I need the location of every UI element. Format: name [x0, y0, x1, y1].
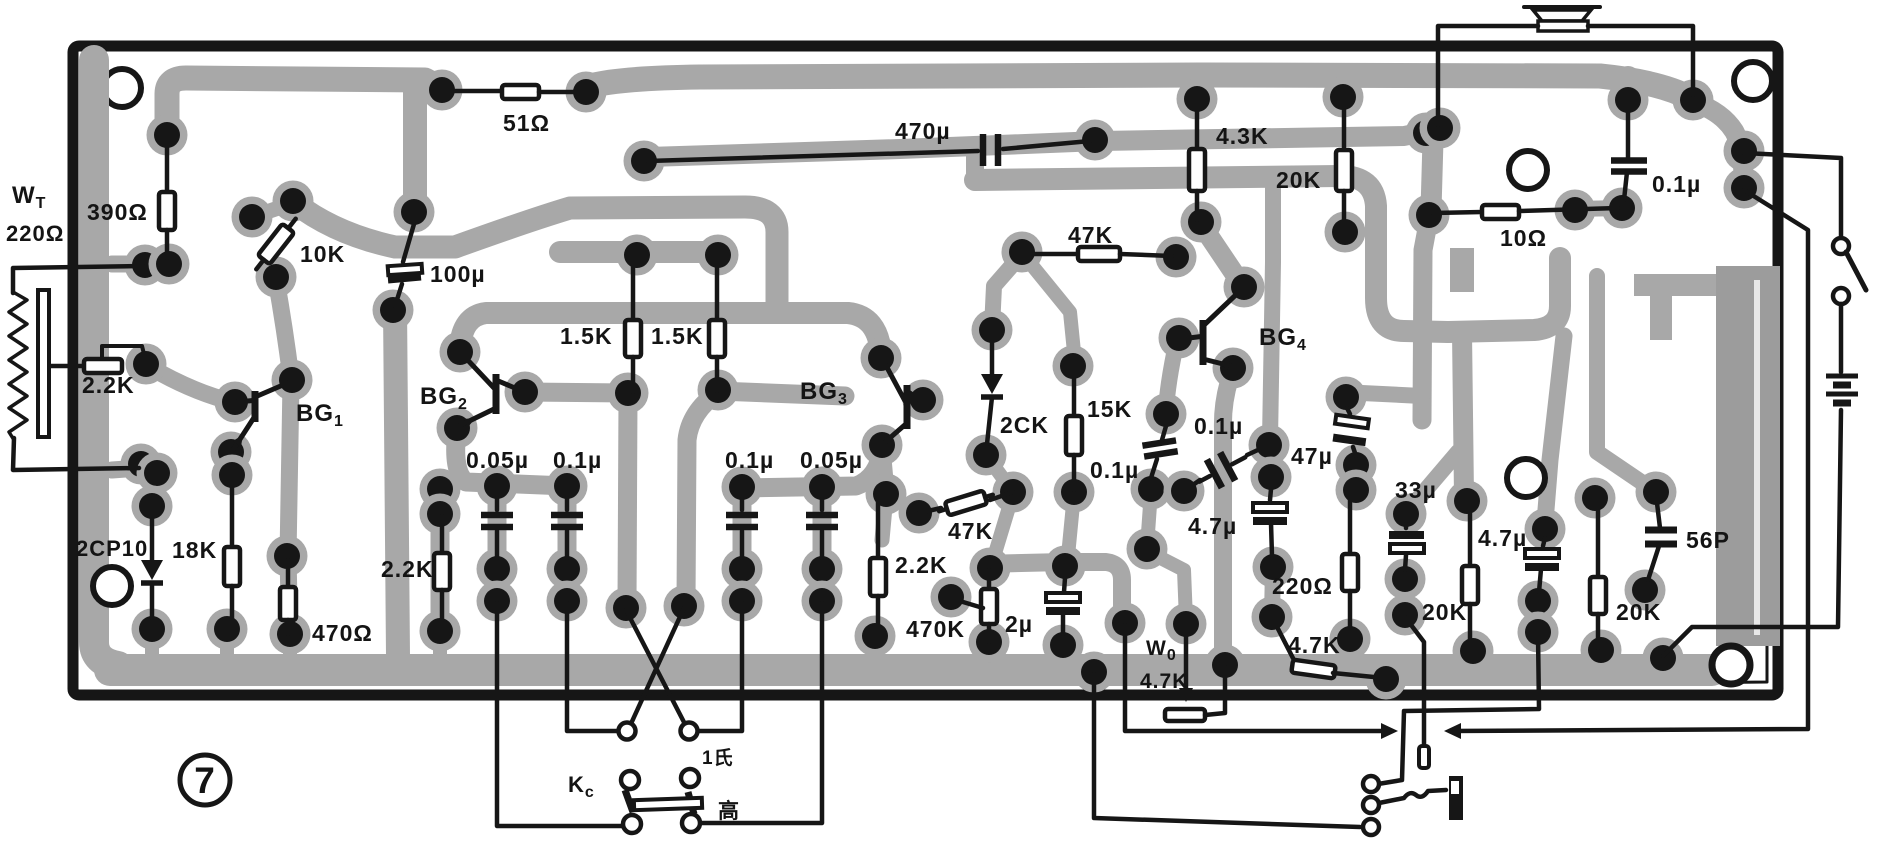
pad P41 cap c bottom [722, 581, 763, 622]
trace finger under 10ohm pad [1422, 218, 1429, 420]
pad P40 cap c mid [722, 549, 763, 590]
pad P79 0.1u top [1146, 394, 1187, 435]
pad P34 cap b top [547, 466, 588, 507]
switch K contact a [1833, 238, 1849, 254]
pad P22 100u bottom [373, 290, 414, 331]
resistor R14 20K [1336, 99, 1352, 230]
wire corner pad out [1663, 410, 1841, 656]
pad P45 2.2Kb upper [420, 469, 461, 510]
plug pin [1419, 746, 1429, 768]
trace 20Kc stub bottom [1594, 652, 1608, 660]
trace 0.1u column BG4 [1270, 188, 1273, 474]
trace stub 2.2Kb pad [433, 632, 447, 656]
mounting hole top-right [1734, 62, 1772, 100]
pad P74 470u right [1075, 120, 1116, 161]
trace 47u cap pads column [1349, 467, 1364, 488]
resistor R15 15K [1066, 368, 1082, 490]
pad P103 corner out [1643, 638, 1684, 679]
capacitor C7 2&#181; [1046, 593, 1080, 611]
resistor R7 2.2K [434, 516, 450, 631]
svg-text:15K: 15K [1087, 396, 1132, 422]
resistor R8a 1.5K [625, 257, 641, 392]
jack contact a [1363, 776, 1379, 792]
trace 2CK column [992, 254, 1022, 328]
pad P8 diode bottom [132, 609, 173, 650]
figure number 7 [180, 755, 230, 805]
pad P88 47u bottom a [1336, 445, 1377, 486]
pad P66a speaker wire [1406, 113, 1447, 154]
trace pad pair 18K top column [231, 452, 232, 475]
mounting hole mid-right upper [1509, 151, 1547, 189]
trace down from 0.1u pad [1147, 491, 1151, 547]
selector contact right [681, 723, 698, 740]
pad P51 2.2Kc top [866, 474, 907, 515]
jack contact b [1363, 797, 1379, 813]
pad P92 33u mid [1385, 559, 1426, 600]
mounting hole bottom-right [1712, 646, 1750, 684]
svg-text:220Ω: 220Ω [1272, 573, 1333, 599]
trace cap column c [733, 489, 752, 600]
svg-text:4.7K: 4.7K [1288, 632, 1341, 658]
mounting hole bottom-left [93, 567, 131, 605]
pad P19 51ohm left [422, 70, 463, 111]
pad P109 band out [1074, 652, 1115, 693]
pad P10 18K top b [212, 455, 253, 496]
pad P7 diode top [132, 486, 173, 527]
pad P12 470ohm top [267, 536, 308, 577]
pad P55 2CK bottom [966, 435, 1007, 476]
transistor BG2 [459, 354, 522, 427]
pad P104 470K top [970, 548, 1011, 589]
resistor R11 47K [1026, 247, 1172, 261]
trace ground left column [94, 60, 118, 666]
pad P16 10K top [232, 197, 273, 238]
capacitor C3 0.05&#181; [481, 498, 513, 558]
pad P71 speaker right wire [1673, 80, 1714, 121]
capacitor C6 0.05&#181; [806, 499, 838, 558]
pad P102 56P bottom [1625, 570, 1666, 611]
trace pads blob near 0.1u [1151, 489, 1184, 491]
resistor R16 10&#937; [1433, 205, 1618, 219]
pad P60 47K right [1156, 237, 1197, 278]
trace neck joining rails [966, 152, 984, 180]
pad P25 BG2 emitter [437, 408, 478, 449]
svg-text:0.1µ: 0.1µ [725, 447, 774, 473]
pad P26 BG2 collector [505, 372, 546, 413]
trace stub 18K pad [220, 630, 234, 656]
trace 2u stub bottom [1056, 647, 1070, 656]
svg-text:33µ: 33µ [1395, 477, 1437, 503]
pad P62 4.3K top [1177, 79, 1218, 120]
svg-text:470K: 470K [906, 616, 965, 642]
svg-text:2.2K: 2.2K [82, 372, 135, 398]
trace slab highlight [1754, 280, 1760, 635]
pad P50 BG3 emitter [862, 425, 903, 466]
pad P84 0.1u d right [1249, 425, 1290, 466]
pad P11 18K bottom [207, 609, 248, 650]
pad P67 10ohm left [1409, 195, 1450, 236]
trace 100u column lower [395, 306, 398, 656]
svg-text:4.7µ: 4.7µ [1478, 525, 1527, 551]
pad P97 4.7ub mid [1518, 581, 1559, 622]
trace diagonal to 33u top pad [1412, 452, 1458, 506]
pad P31 cap a top [477, 466, 518, 507]
pad P57 47K left [1002, 232, 1043, 273]
svg-text:47K: 47K [948, 518, 993, 544]
wire 4.7ub out [1378, 634, 1539, 784]
trace pad pair 4.7u-4.7K column [1272, 567, 1273, 617]
wire pot bottom to board [13, 438, 139, 470]
wire cap b to selector [567, 603, 620, 731]
pad P49 BG3 collector [903, 380, 944, 421]
switch Kc contact BL [623, 815, 641, 833]
trace branch to 4.7u cap column [1545, 336, 1564, 522]
trace 4.3K to BG4 collector [1203, 227, 1242, 285]
battery B [1826, 376, 1858, 403]
pad P73 output lower [1724, 168, 1765, 209]
pad P95 20Kb bottom [1453, 631, 1494, 672]
svg-text:4.7µ: 4.7µ [1188, 513, 1237, 539]
trace diode column [144, 472, 160, 504]
pad P39 cap c top [722, 467, 763, 508]
resistor R10 470K [981, 570, 997, 642]
pad P29 1.5Ka top [617, 235, 658, 276]
trace finger plate right of 10ohm [1450, 248, 1474, 292]
wire cap d to Kc [698, 603, 822, 823]
wire W0 right terminal [1205, 667, 1225, 715]
trace 2.2K pad to BG1 base [148, 366, 233, 402]
trace pad pair 2.2Kb column [432, 489, 448, 514]
svg-text:0.1µ: 0.1µ [1090, 457, 1139, 483]
svg-text:100µ: 100µ [430, 261, 486, 287]
trace top rail to output pads [1694, 102, 1744, 184]
trace column to 56P pad [1597, 276, 1650, 488]
trace BG4 emitter strip [1223, 372, 1232, 650]
wire 470K side link [953, 599, 983, 608]
svg-text:2CK: 2CK [1000, 412, 1049, 438]
pad P99 20Kc top [1575, 478, 1616, 519]
trace supply rail under 4.3K [975, 176, 1448, 332]
resistor R3 51&#937; [446, 85, 582, 99]
pad P3 390ohm bottom [149, 244, 190, 285]
pad P46 2.2Kb top [420, 494, 461, 535]
W0 wiper arrow [1179, 688, 1193, 702]
trace base rail BG2 to BG3 [460, 313, 881, 354]
svg-text:0.1µ: 0.1µ [553, 447, 602, 473]
pad P75 470u left [624, 141, 665, 182]
capacitor C13 33&#181; [1389, 524, 1424, 570]
switch Kc contact BR [682, 814, 700, 832]
pad P2 pot wire [125, 245, 166, 286]
selector contact left [619, 723, 636, 740]
trace stub to R14 top pad [1335, 78, 1351, 96]
trace 2.2Kc stub bottom [868, 638, 882, 656]
trace BG4 base link [1166, 340, 1177, 410]
svg-text:0.1µ: 0.1µ [1652, 171, 1701, 197]
trace cap column d [813, 489, 832, 600]
pad P93 33u bottom [1385, 595, 1426, 636]
svg-text:10Ω: 10Ω [1500, 225, 1547, 251]
svg-text:0.05µ: 0.05µ [466, 447, 529, 473]
wire cap c to selector [696, 603, 742, 731]
trace short rail 1.5K tops [560, 241, 720, 263]
svg-text:20K: 20K [1616, 599, 1661, 625]
wire cap a to Kc [497, 603, 622, 826]
pad P30 1.5Kb top [698, 235, 739, 276]
capacitor C12 47&#181; [1333, 415, 1369, 442]
wire jack tip [1379, 790, 1446, 803]
capacitor C16 0.1&#181; e [1611, 161, 1647, 172]
pad P87 4.7K left [1252, 597, 1293, 638]
pad P70 0.1u top right [1608, 80, 1649, 121]
wire switch to battery [1839, 304, 1844, 372]
pad P1 390ohm top [147, 115, 188, 156]
trace pad pair output column [1735, 151, 1753, 188]
trace stub to R12 top pad [1189, 78, 1205, 97]
trace BG1 collector column [288, 382, 291, 648]
svg-text:20K: 20K [1422, 599, 1467, 625]
wire 33u pad to plug pin [1405, 617, 1424, 744]
pad P47 2.2Kb bottom [420, 611, 461, 652]
switch Kc contact TL [621, 771, 639, 789]
capacitor C16 leads [1626, 112, 1631, 158]
svg-text:470µ: 470µ [895, 118, 951, 144]
pad P101 56P top [1636, 472, 1677, 513]
potentiometer W0 4.7K body [1165, 709, 1205, 721]
pad P6 2.2K right [126, 344, 167, 385]
pad P89 47u bottom b [1336, 470, 1377, 511]
capacitor C10 leads [1270, 489, 1271, 500]
trace 470K stub bottom [982, 644, 996, 656]
svg-text:4.7K: 4.7K [1140, 670, 1188, 693]
capacitor C9 0.1&#181; d [1192, 443, 1253, 496]
svg-text:20K: 20K [1276, 167, 1321, 193]
pad P52 2.2Kc bottom [855, 616, 896, 657]
resistor R13 47K b [937, 488, 995, 518]
pad P42 cap d top [802, 467, 843, 508]
svg-text:0.05µ: 0.05µ [800, 447, 863, 473]
capacitor C7 leads [1064, 578, 1065, 592]
resistor R5 18K [224, 465, 240, 629]
pad P80 0.1u bottom [1131, 469, 1172, 510]
switch K contact b [1833, 288, 1849, 304]
pad P83 W0 wiper [1166, 604, 1207, 645]
pad P113 47u cap top [1326, 377, 1367, 418]
trace link 10ohm right pads [1575, 208, 1622, 209]
trace link 2CK pad to 47K pad [986, 455, 1013, 492]
pad P65 20Ka bottom [1325, 212, 1366, 253]
svg-text:4.3K: 4.3K [1216, 123, 1269, 149]
pad P56 2CK top [972, 310, 1013, 351]
trace right edge slab [1716, 266, 1780, 646]
pad P111 W0 right [1205, 645, 1246, 686]
pad P24 BG2 base [440, 332, 481, 373]
pad P66b speaker wire [1420, 108, 1461, 149]
trace 470u rail [648, 132, 1424, 157]
wire to arrow right [1125, 625, 1392, 731]
trace rail to wiper pad [980, 562, 1122, 618]
trace pad pair 4.7ub column [1530, 601, 1546, 632]
pad P36 cap b bottom [547, 581, 588, 622]
pad P28 1.5Kb bottom [698, 370, 739, 411]
pad P108 2u bottom [1043, 625, 1084, 666]
pad P68 10ohm right a [1555, 190, 1596, 231]
wire band to jack sleeve [1094, 674, 1360, 827]
wire crossover right [629, 608, 684, 728]
switch K blade [1846, 252, 1866, 290]
pad P14 BG1 base [215, 382, 256, 423]
pad P64 20Ka top [1323, 77, 1364, 118]
pad P94 20Kb top [1447, 481, 1488, 522]
trace stub left rail to pads P4 [112, 468, 140, 470]
pad P54 47Kb right [993, 472, 1034, 513]
board inner edge line bottom-right [1580, 520, 1767, 684]
resistor R20 4.7K [1274, 621, 1384, 678]
pad P59 15K bottom [1054, 472, 1095, 513]
transistor BG1 [233, 382, 290, 450]
pad P110 arrow wire [1105, 603, 1146, 644]
trace 10K pads link [252, 203, 293, 217]
svg-text:470Ω: 470Ω [312, 620, 373, 646]
pad P105 2u top [1045, 546, 1086, 587]
resistor R4 2.2K [49, 346, 145, 373]
trace stub to C11 top pad [1616, 78, 1640, 98]
svg-text:2CP10: 2CP10 [76, 536, 148, 561]
capacitor C8 0.1&#181; [1142, 440, 1177, 456]
capacitor C14 4.7&#181;b [1525, 549, 1559, 567]
svg-text:51Ω: 51Ω [503, 110, 550, 136]
svg-text:高: 高 [718, 799, 740, 823]
resistor R2 10K [250, 214, 301, 274]
pad P9 18K top a [211, 432, 252, 473]
pad P78 BG4 base [1159, 318, 1200, 359]
svg-text:1.5K: 1.5K [651, 323, 704, 349]
pad P18 10K bottom [256, 257, 297, 298]
pad P13 470ohm bottom [270, 614, 311, 655]
pad P5 diode column [137, 453, 178, 494]
mounting hole top-left [103, 69, 141, 107]
pad P35 cap b mid [547, 549, 588, 590]
pad P37 crossover left [606, 588, 647, 629]
capacitor C14 leads [1543, 538, 1545, 546]
pad P96 4.7ub top [1525, 509, 1566, 550]
capacitor C2 470&#181; [648, 134, 1090, 166]
trace stub left rail to pads P2 [112, 256, 144, 273]
pad P15 BG1 collector [272, 360, 313, 401]
trace link R8 pad to BG3 pad [718, 391, 845, 396]
capacitor C4 0.1&#181; [551, 498, 583, 558]
switch Kc slider [625, 790, 702, 814]
mounting hole mid-right lower [1507, 459, 1545, 497]
trace supply rail right tee [1448, 258, 1560, 332]
pad P76 BG4 collector [1224, 267, 1265, 308]
trace 220ohm stub bottom [1343, 642, 1357, 658]
svg-text:7: 7 [194, 760, 216, 801]
svg-text:56P: 56P [1686, 527, 1730, 553]
trace stub diode pad [145, 630, 159, 656]
svg-text:1.5K: 1.5K [560, 323, 613, 349]
potentiometer WT slider [38, 290, 49, 437]
trace BG2 emitter to caps [456, 430, 567, 486]
pad P17 rail start [273, 181, 314, 222]
capacitor C10 4.7&#181; [1253, 503, 1287, 521]
pad P69 10ohm right b [1602, 188, 1643, 229]
transistor BG4 [1181, 289, 1242, 370]
PCB board outline [73, 46, 1778, 695]
svg-text:1氏: 1氏 [702, 747, 734, 769]
wire output upper to switch [1744, 153, 1841, 238]
trace cap column b [558, 488, 577, 600]
wire pot top to board [13, 266, 143, 293]
trace 56P bottom stub [1639, 592, 1651, 600]
trace stub 470ohm pad [283, 635, 297, 656]
pad P77 BG4 emitter [1213, 348, 1254, 389]
pad P90 220ohm bottom [1330, 619, 1371, 660]
arrow right [1381, 723, 1398, 739]
pad P21 100u top [394, 192, 435, 233]
trace pad pair pot lower blob [141, 464, 157, 473]
pad P82 mid via [1127, 529, 1168, 570]
resistor R19 20K c [1590, 500, 1606, 648]
trace pad pair 0.1u-4.7u column [1269, 445, 1271, 477]
svg-text:10K: 10K [300, 241, 345, 267]
svg-text:47K: 47K [1068, 222, 1113, 248]
trace 100u column upper [403, 80, 427, 198]
trace top rail right segment [590, 75, 1690, 98]
pad P106 470K side [931, 577, 972, 618]
trace column below R8a [627, 397, 628, 604]
svg-text:2.2K: 2.2K [895, 552, 948, 578]
switch Kc contact TR [681, 769, 699, 787]
pad P33 cap a bottom [477, 581, 518, 622]
pad P86 4.7u bottom [1253, 547, 1294, 588]
trace 47u top link [1348, 393, 1422, 396]
resistor R12 4.3K [1189, 101, 1205, 220]
pad P53 47Kb left [899, 493, 940, 534]
trace tee plate near slab [1634, 274, 1718, 296]
trace pad pair 33u column [1397, 579, 1413, 615]
svg-text:2.2K: 2.2K [381, 556, 434, 582]
diode D1 2CP10 [141, 518, 163, 618]
capacitor C15 56P [1645, 530, 1677, 544]
pad P85 4.7u top [1251, 457, 1292, 498]
pad P61 4.3K bottom [1181, 202, 1222, 243]
trace 10K bottom to BG1 collector [276, 279, 291, 378]
pad P32 cap a mid [477, 549, 518, 590]
wire speaker right [1588, 26, 1693, 95]
trace 47K left link [888, 495, 919, 514]
trace BG2 collector link [525, 392, 628, 393]
trace 15K bottom down [1068, 494, 1074, 556]
wire speaker left [1438, 26, 1538, 125]
resistor R8b 1.5K [709, 257, 725, 391]
wire W0 wiper [1184, 626, 1189, 692]
trace BG3 emitter link down [882, 447, 886, 492]
wire crossover left [626, 610, 687, 728]
pad P58 15K top [1053, 346, 1094, 387]
capacitor C15 leads [1657, 503, 1660, 528]
potentiometer WT zigzag [9, 292, 27, 440]
arrow left [1444, 723, 1461, 739]
pad P91 33u top [1386, 494, 1427, 535]
resistor R6 470&#937; [280, 560, 296, 634]
resistor R9 2.2K c [870, 496, 886, 636]
resistor R17 220&#937; [1342, 492, 1358, 637]
pad P72 output upper [1724, 131, 1765, 172]
trace 47K right down to 470K [993, 494, 1013, 560]
trace ground bottom band [110, 654, 1712, 686]
jack contact c [1363, 819, 1379, 835]
